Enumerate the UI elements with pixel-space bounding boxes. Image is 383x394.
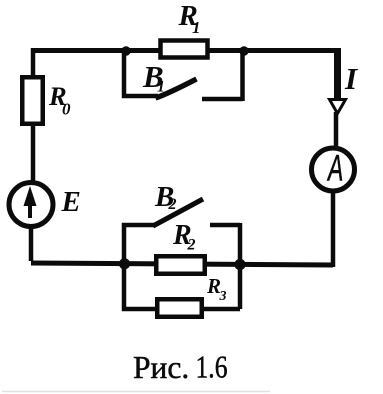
label B1 — [142, 59, 165, 96]
resistor R1 — [161, 41, 208, 58]
svg-text:3: 3 — [219, 289, 227, 304]
wire E to bottom corner — [29, 227, 34, 261]
node left top junction — [121, 46, 130, 55]
label R0 — [48, 81, 71, 119]
wire right vertical upper — [334, 48, 341, 100]
switch B2 — [124, 199, 240, 264]
svg-text:2: 2 — [168, 196, 177, 213]
current arrow I — [330, 100, 346, 114]
svg-text:A: A — [327, 147, 344, 189]
wire bottom horizontal — [31, 263, 333, 265]
svg-text:0: 0 — [62, 100, 71, 119]
svg-text:1: 1 — [192, 18, 201, 37]
svg-text:Рис.: Рис. — [133, 350, 189, 385]
wire arrow to ammeter — [334, 112, 339, 147]
resistor R0 — [22, 77, 43, 124]
node bottom right junction — [234, 259, 245, 270]
svg-text:1.6: 1.6 — [196, 350, 228, 385]
wire ammeter to bottom corner — [331, 191, 336, 267]
svg-text:E: E — [61, 186, 81, 218]
label B2 — [154, 181, 177, 213]
node right top junction — [239, 46, 248, 55]
EMF source E — [9, 183, 53, 227]
svg-text:2: 2 — [187, 237, 196, 254]
wire top horizontal — [33, 48, 341, 53]
label R2 — [172, 220, 196, 254]
label R1 — [178, 0, 201, 37]
resistor R3 branch wires — [124, 264, 240, 309]
resistor R2 — [156, 256, 205, 274]
resistor R3 — [157, 299, 202, 317]
wire left vertical top — [31, 48, 36, 76]
label R3 — [206, 274, 227, 304]
ammeter A — [312, 147, 355, 191]
switch B1 — [124, 51, 243, 101]
wire R0 to E — [31, 126, 36, 183]
node bottom left junction — [119, 258, 130, 269]
svg-text:I: I — [344, 61, 358, 96]
svg-text:1: 1 — [157, 79, 165, 96]
